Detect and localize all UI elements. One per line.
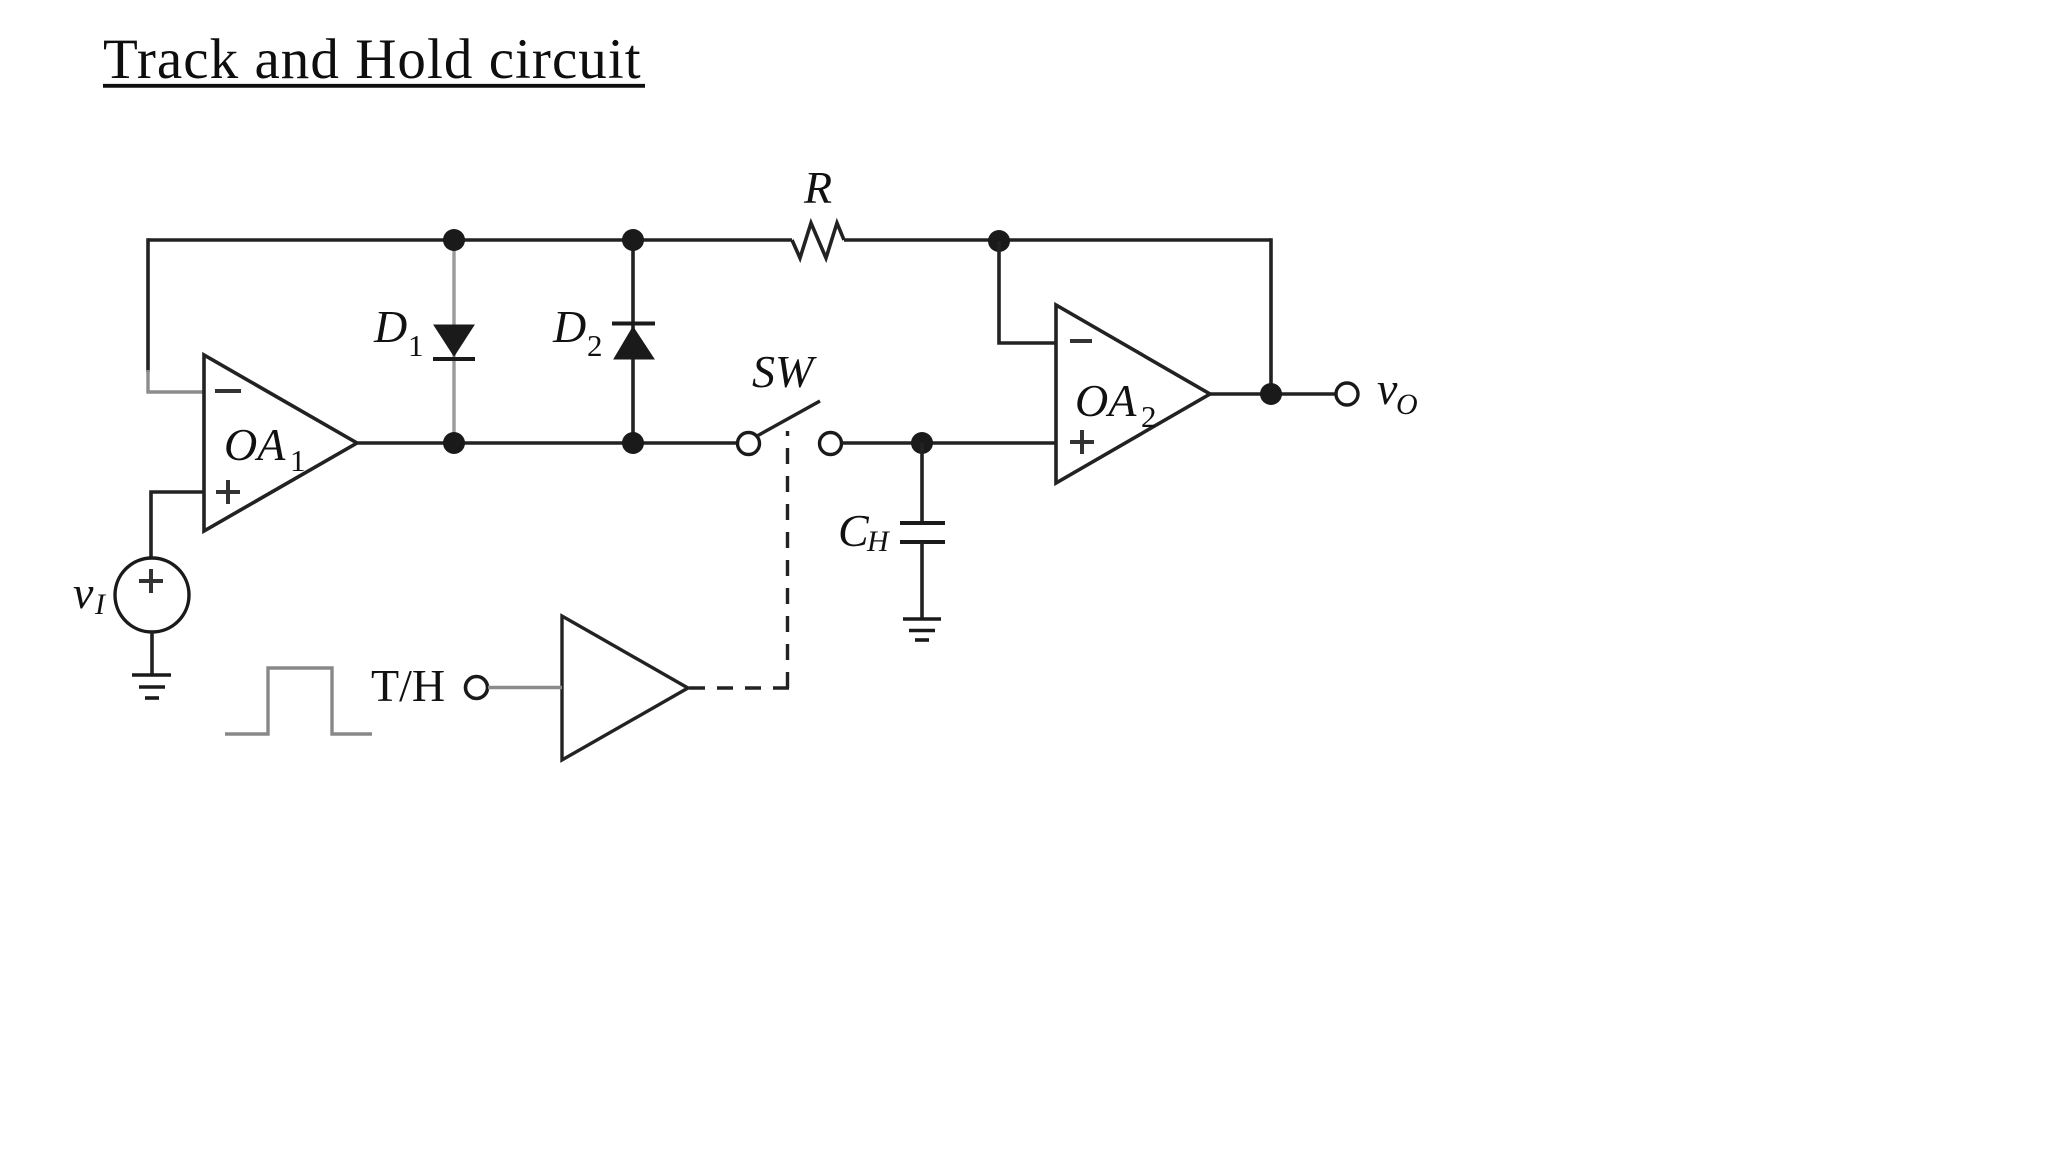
label vO bbox=[1377, 363, 1418, 421]
op-amp OA2 bbox=[1056, 305, 1210, 483]
terminal vO bbox=[1336, 383, 1358, 405]
svg-text:D: D bbox=[373, 301, 407, 352]
label OA1 bbox=[224, 419, 306, 478]
svg-text:H: H bbox=[866, 525, 891, 558]
label D1 bbox=[373, 301, 424, 363]
wire: OA1 output row bbox=[357, 441, 737, 445]
svg-text:C: C bbox=[838, 505, 870, 556]
node: top rail / OA2 feedback tap bbox=[988, 230, 1010, 252]
switch SW left contact bbox=[738, 433, 760, 455]
title: Track and Hold circuit bbox=[103, 28, 645, 91]
svg-text:Track and Hold circuit: Track and Hold circuit bbox=[103, 28, 642, 91]
op-amp OA1 bbox=[204, 355, 357, 531]
dashed control line vertical to switch bbox=[786, 431, 789, 688]
svg-text:D: D bbox=[552, 301, 586, 352]
resistor R bbox=[792, 223, 844, 258]
ground (source) bbox=[132, 675, 171, 698]
svg-text:OA: OA bbox=[1075, 375, 1137, 426]
label CH bbox=[838, 505, 891, 558]
wire: feedback from output node up to rail bbox=[1269, 238, 1273, 394]
capacitor CH bbox=[900, 523, 945, 542]
node: OA1 output / D1 bbox=[443, 432, 465, 454]
svg-text:1: 1 bbox=[290, 443, 306, 478]
OA1 plus sign bbox=[216, 480, 240, 504]
diode D2 bbox=[612, 324, 655, 360]
wire: switch to OA2 plus input bbox=[842, 441, 1056, 445]
ground (CH) bbox=[903, 619, 941, 640]
svg-text:O: O bbox=[1396, 388, 1418, 421]
vI plus sign bbox=[139, 569, 163, 593]
wire: OA2 inverting input from feedback node bbox=[999, 241, 1056, 343]
svg-text:2: 2 bbox=[587, 328, 603, 363]
wire: OA1 noninverting input bbox=[151, 492, 204, 559]
terminal T/H bbox=[466, 677, 488, 699]
wire: T/H terminal to buffer bbox=[488, 686, 562, 690]
svg-text:OA: OA bbox=[224, 419, 286, 470]
node: CH tap bbox=[911, 432, 933, 454]
wire: left vertical from rail to OA1 inverting input bbox=[146, 238, 150, 372]
control buffer amplifier bbox=[562, 616, 688, 760]
capacitor CH wire upper bbox=[920, 443, 924, 523]
control pulse waveform bbox=[225, 668, 372, 734]
dashed control line horizontal bbox=[689, 686, 789, 689]
OA2 minus sign bbox=[1070, 339, 1092, 343]
node: top rail / D2 bbox=[622, 229, 644, 251]
node: top rail / D1 bbox=[443, 229, 465, 251]
OA2 plus sign bbox=[1070, 430, 1094, 454]
svg-text:T/H: T/H bbox=[371, 660, 445, 711]
label OA2 bbox=[1075, 375, 1157, 434]
label vI bbox=[73, 567, 107, 621]
wire: gray corner into OA1 minus input bbox=[148, 370, 203, 392]
capacitor CH wire lower bbox=[920, 542, 924, 619]
diode D1 branch wire bbox=[452, 240, 455, 443]
switch SW lever bbox=[757, 401, 820, 436]
diode D2 branch wire bbox=[631, 240, 635, 443]
svg-text:v: v bbox=[73, 567, 94, 618]
node: OA1 output / D2 bbox=[622, 432, 644, 454]
svg-text:1: 1 bbox=[408, 328, 424, 363]
wire: source to ground bbox=[150, 632, 154, 674]
wire: top feedback rail left segment bbox=[148, 238, 792, 242]
OA1 minus sign bbox=[215, 389, 241, 393]
wire: top rail right of resistor bbox=[844, 238, 1271, 242]
label D2 bbox=[552, 301, 603, 363]
source vI bbox=[115, 558, 189, 632]
switch SW right contact bbox=[820, 433, 842, 455]
wire: OA2 output bbox=[1210, 392, 1336, 396]
svg-text:R: R bbox=[803, 162, 832, 213]
node: OA2 output bbox=[1260, 383, 1282, 405]
diode D1 bbox=[433, 325, 475, 359]
svg-text:v: v bbox=[1377, 363, 1398, 414]
svg-text:SW: SW bbox=[752, 346, 817, 397]
svg-text:2: 2 bbox=[1141, 399, 1157, 434]
